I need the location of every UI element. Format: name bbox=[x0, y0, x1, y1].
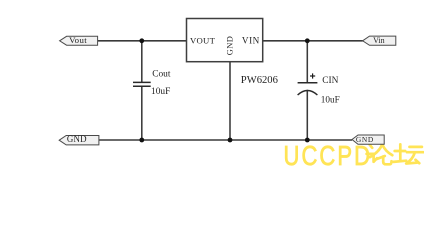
svg-text:GND: GND bbox=[356, 135, 374, 144]
svg-text:GND: GND bbox=[67, 134, 87, 144]
svg-text:CIN: CIN bbox=[322, 76, 338, 86]
svg-text:10uF: 10uF bbox=[151, 87, 170, 97]
svg-text:Vin: Vin bbox=[373, 36, 385, 45]
svg-text:VIN: VIN bbox=[242, 35, 260, 45]
svg-text:Vout: Vout bbox=[69, 35, 87, 45]
svg-text:Cout: Cout bbox=[152, 69, 171, 79]
svg-text:UCCPD: UCCPD bbox=[284, 141, 373, 169]
svg-text:VOUT: VOUT bbox=[190, 35, 216, 45]
svg-text:PW6206: PW6206 bbox=[241, 75, 278, 86]
svg-text:10uF: 10uF bbox=[321, 94, 340, 104]
svg-text:GND: GND bbox=[226, 36, 235, 55]
